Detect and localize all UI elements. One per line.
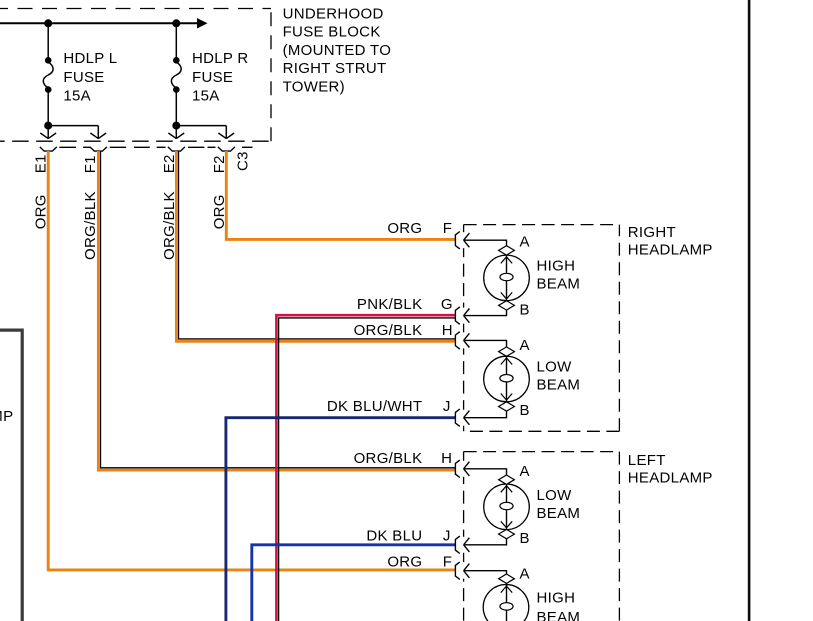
svg-text:A: A xyxy=(520,234,530,251)
svg-text:HIGH: HIGH xyxy=(537,258,576,275)
junction dot bus right xyxy=(172,19,180,27)
high beam bulb right: wires xyxy=(464,240,507,315)
connector bracket+arrow pin H right xyxy=(455,332,469,349)
svg-text:RIGHT STRUT: RIGHT STRUT xyxy=(283,60,387,77)
filament arrows + coil xyxy=(501,486,512,528)
svg-text:B: B xyxy=(520,302,530,319)
bus arrow xyxy=(197,18,208,28)
svg-text:FUSE: FUSE xyxy=(63,69,104,86)
svg-text:A: A xyxy=(520,463,530,480)
node B diamond xyxy=(499,402,515,411)
arrow E2 xyxy=(168,132,184,139)
left headlamp dashed box xyxy=(464,452,620,621)
node B diamond xyxy=(499,529,515,538)
svg-text:B: B xyxy=(520,402,530,419)
low beam bulb right: wires xyxy=(464,340,507,417)
svg-text:F1: F1 xyxy=(82,155,99,173)
wire ORG from E1 to left headlamp F xyxy=(48,151,455,570)
low beam bulb left: circle xyxy=(484,484,530,530)
svg-text:G: G xyxy=(441,296,453,313)
high beam bulb right: circle xyxy=(484,255,530,301)
svg-text:BEAM: BEAM xyxy=(537,609,581,621)
right headlamp dashed box xyxy=(464,225,620,432)
svg-text:LOW: LOW xyxy=(537,359,573,376)
filament arrows + coil xyxy=(501,257,512,299)
arrow F1 xyxy=(90,132,106,139)
svg-text:ORG: ORG xyxy=(387,220,422,237)
wire DK BLU/WHT to right headlamp J xyxy=(226,418,455,621)
svg-text:PNK/BLK: PNK/BLK xyxy=(357,296,422,313)
svg-text:C3: C3 xyxy=(235,151,252,171)
svg-text:BEAM: BEAM xyxy=(537,505,581,522)
node A diamond xyxy=(499,347,515,356)
node A diamond xyxy=(499,246,515,255)
underhood fuse block (dashed box) xyxy=(0,9,271,142)
in-line connector dashed row xyxy=(59,146,252,148)
wire ORG from F2 to right headlamp F xyxy=(226,151,455,239)
svg-text:ORG/BLK: ORG/BLK xyxy=(82,191,99,260)
svg-text:MP: MP xyxy=(0,408,13,425)
svg-text:TOWER): TOWER) xyxy=(283,78,345,95)
svg-text:FUSE BLOCK: FUSE BLOCK xyxy=(283,24,381,41)
low beam bulb left: wires xyxy=(464,469,507,545)
arrow F2 xyxy=(218,132,234,139)
wire ORG/BLK from E2 to right headlamp H xyxy=(179,151,456,339)
svg-text:HDLP R: HDLP R xyxy=(192,50,249,67)
node A diamond xyxy=(499,574,515,583)
svg-text:A: A xyxy=(520,337,530,354)
bus wire xyxy=(0,22,206,24)
junction dot bus left xyxy=(44,19,52,27)
svg-text:J: J xyxy=(443,398,451,415)
connector bracket E1 xyxy=(40,147,57,151)
branch wires to fuse block outputs xyxy=(48,126,226,134)
connector bracket+arrow pin F right xyxy=(455,232,469,249)
svg-text:B: B xyxy=(520,530,530,547)
arrow E1 xyxy=(40,132,56,139)
filament arrows + coil xyxy=(501,358,512,400)
white gaps at left headlamp pins xyxy=(461,461,467,579)
svg-text:UNDERHOOD: UNDERHOOD xyxy=(283,6,384,23)
svg-text:ORG: ORG xyxy=(387,554,422,571)
svg-text:DK BLU: DK BLU xyxy=(366,528,422,545)
wire ORG/BLK from F1 to left headlamp H xyxy=(101,151,456,468)
svg-text:BEAM: BEAM xyxy=(537,276,581,293)
connector bracket+arrow pin J left xyxy=(455,536,469,553)
svg-text:HEADLAMP: HEADLAMP xyxy=(628,470,713,487)
svg-text:H: H xyxy=(442,322,453,339)
svg-text:F: F xyxy=(443,220,452,237)
wire PNK/BLK to right headlamp G xyxy=(279,318,455,621)
white gaps at right headlamp pins xyxy=(461,232,467,426)
left component box (thick, cut off) xyxy=(0,330,22,621)
node A diamond xyxy=(499,475,515,484)
connector bracket+arrow pin G right xyxy=(455,307,469,324)
svg-text:DK BLU/WHT: DK BLU/WHT xyxy=(327,398,423,415)
svg-text:FUSE: FUSE xyxy=(192,69,233,86)
page border line xyxy=(748,0,751,621)
connector bracket F2 xyxy=(218,147,235,151)
svg-text:HIGH: HIGH xyxy=(537,590,576,607)
svg-text:BEAM: BEAM xyxy=(537,377,581,394)
svg-text:J: J xyxy=(443,528,451,545)
filament arrow + coil xyxy=(501,586,512,593)
wire DK BLU to left headlamp J xyxy=(252,545,455,621)
svg-text:H: H xyxy=(441,450,452,467)
node B diamond xyxy=(499,301,515,310)
connector bracket E2 xyxy=(168,147,185,151)
connector bracket+arrow pin H left xyxy=(455,460,469,477)
high beam bulb left: circle (cut off) xyxy=(483,585,529,621)
svg-text:LOW: LOW xyxy=(537,487,573,504)
svg-text:(MOUNTED TO: (MOUNTED TO xyxy=(283,42,392,59)
svg-text:RIGHT: RIGHT xyxy=(628,224,676,241)
fuse F2 HDLP R 15A xyxy=(171,23,181,125)
connector bracket+arrow pin J right xyxy=(455,409,469,426)
low beam bulb right: circle xyxy=(484,356,530,402)
svg-text:ORG/BLK: ORG/BLK xyxy=(354,322,423,339)
svg-text:ORG/BLK: ORG/BLK xyxy=(354,450,423,467)
svg-text:F: F xyxy=(443,554,452,571)
connector bracket F1 xyxy=(90,147,107,151)
svg-text:HDLP L: HDLP L xyxy=(63,50,117,67)
svg-text:15A: 15A xyxy=(192,88,220,105)
svg-text:15A: 15A xyxy=(63,88,91,105)
svg-text:LEFT: LEFT xyxy=(628,452,666,469)
connector bracket+arrow pin F left xyxy=(455,562,469,579)
svg-text:A: A xyxy=(520,566,530,583)
fuse F1 HDLP L 15A xyxy=(43,23,53,125)
high beam bulb left: wires xyxy=(464,571,507,621)
svg-text:HEADLAMP: HEADLAMP xyxy=(628,242,713,259)
